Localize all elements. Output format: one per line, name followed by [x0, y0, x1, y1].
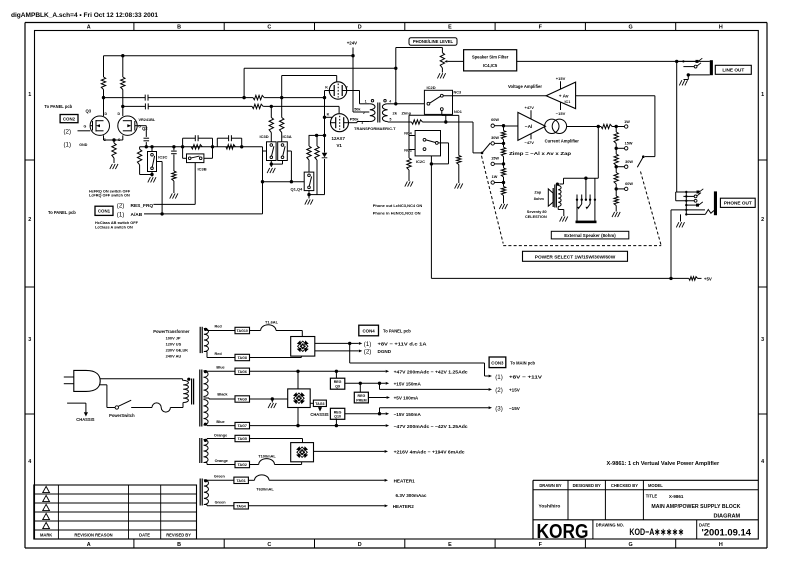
- svg-text:DESIGNED BY: DESIGNED BY: [573, 483, 601, 488]
- svg-text:HEATER1: HEATER1: [394, 479, 416, 484]
- svg-text:1: 1: [365, 100, 367, 104]
- svg-text:Current Amplifier: Current Amplifier: [545, 139, 580, 144]
- label NO1: [454, 110, 462, 114]
- svg-text:B: B: [177, 25, 181, 31]
- svg-text:MODEL: MODEL: [648, 483, 663, 488]
- wire RC node line: [140, 145, 263, 148]
- wire +5V rail: [431, 164, 701, 280]
- svg-text:IC3B: IC3B: [198, 166, 207, 171]
- label 60W left: [491, 118, 499, 122]
- svg-text:G: G: [138, 125, 141, 129]
- connector CON2 box: [60, 115, 78, 123]
- transformer secondary Blue core: [200, 370, 202, 427]
- jack PHONE OUT: [671, 189, 717, 222]
- svg-text:+5V: +5V: [704, 277, 712, 282]
- svg-text:Red: Red: [215, 352, 223, 356]
- svg-text:Speaker Sim Filter: Speaker Sim Filter: [472, 54, 509, 59]
- label xfmr pin5: [390, 118, 392, 122]
- ground line out: [679, 80, 687, 85]
- svg-text:TAG3: TAG3: [315, 402, 324, 406]
- label +15V out: [394, 382, 422, 387]
- svg-text:−15V: −15V: [509, 406, 521, 411]
- svg-text:−47V: −47V: [525, 140, 535, 145]
- wire grid branch line: [309, 134, 325, 137]
- svg-text:+24V: +24V: [347, 41, 357, 46]
- svg-text:PowerTransformer: PowerTransformer: [153, 329, 190, 334]
- svg-text:8ohm: 8ohm: [534, 197, 545, 201]
- fuse heater1: [248, 475, 388, 482]
- label A/AB: [117, 212, 143, 219]
- label PowerSwitch: [109, 413, 135, 418]
- label CHASSIS at plug: [76, 417, 94, 422]
- box Speaker Sim Filter: [464, 50, 517, 71]
- capacitor C-wireB: [145, 103, 148, 109]
- label HEATER2: [393, 504, 415, 509]
- label CON3 pin3: [495, 406, 521, 413]
- svg-text:−Al: −Al: [525, 124, 533, 130]
- wire BR2 vertical taps: [297, 371, 299, 425]
- switch IC2D: [424, 90, 452, 114]
- label T100mAL: [258, 454, 276, 459]
- label P lower: [350, 117, 353, 121]
- label IC3A: [283, 134, 292, 139]
- svg-text:NO1: NO1: [454, 110, 462, 114]
- bridge rectifier BR3: [291, 443, 314, 462]
- fuse T100mAL: [250, 459, 302, 465]
- svg-text:E: E: [448, 542, 452, 548]
- svg-text:(1): (1): [64, 142, 72, 149]
- wire REG PREM in: [359, 383, 361, 392]
- capacitor C-loop2: [217, 135, 241, 147]
- svg-text:External Speaker (8ohm): External Speaker (8ohm): [564, 233, 616, 238]
- svg-text:Orange: Orange: [214, 434, 227, 438]
- svg-text:1: 1: [28, 92, 31, 98]
- label Blue top: [216, 365, 224, 369]
- svg-text:(1): (1): [117, 212, 125, 219]
- svg-text:A: A: [87, 25, 91, 31]
- label PHONE OUT box: [720, 198, 755, 207]
- label 2k Zimp: [393, 110, 412, 115]
- tag TAG1: [234, 477, 249, 483]
- svg-text:KORG: KORG: [537, 520, 589, 543]
- label Current Amplifier: [545, 139, 580, 144]
- svg-text:DGND: DGND: [378, 349, 392, 354]
- switch arm right: [637, 155, 644, 167]
- svg-text:X-9861: 1 ch Vertual Valve Pow: X-9861: 1 ch Vertual Valve Power Amplifi…: [607, 461, 720, 467]
- label NC3: [454, 91, 462, 95]
- svg-text:−47V 200mAdc − −42V 1.25Adc: −47V 200mAdc − −42V 1.25Adc: [394, 424, 468, 429]
- label Orange bottom: [215, 459, 228, 463]
- wire Orange bottom: [204, 463, 236, 465]
- svg-text:IC1: IC1: [565, 100, 571, 104]
- label Black: [217, 392, 228, 396]
- svg-text:T1.6AL: T1.6AL: [265, 320, 279, 325]
- wire +15V to CON3: [380, 383, 493, 391]
- svg-text:2k: 2k: [393, 110, 398, 115]
- svg-text:LcFRQ OFF switch ON: LcFRQ OFF switch ON: [89, 194, 130, 198]
- svg-text:CELESTION: CELESTION: [525, 215, 547, 219]
- label xfmr 50k pin2: [354, 108, 365, 115]
- label CON2 pin2: [64, 128, 72, 135]
- svg-text:RES_FRQ: RES_FRQ: [131, 203, 154, 209]
- connector CON4 box: [359, 325, 379, 336]
- svg-text:TRANSFORMAER/C.T: TRANSFORMAER/C.T: [354, 126, 396, 131]
- ground pot: [437, 73, 445, 78]
- wire +8V to CON3: [350, 343, 492, 377]
- label To PANEL pcb (CON1): [48, 210, 76, 215]
- wire Zimp to arm: [388, 120, 482, 153]
- switch IC3B: [187, 154, 204, 163]
- svg-text:X-9861: X-9861: [669, 494, 684, 499]
- svg-text:Voltage Amplifier: Voltage Amplifier: [508, 84, 542, 89]
- svg-text:NC3: NC3: [454, 91, 462, 95]
- wire NC4 NO2 bracket: [409, 136, 415, 159]
- svg-text:3: 3: [28, 337, 31, 343]
- wire fuse to bridge1: [301, 331, 303, 337]
- label 12AX7 V1: [332, 136, 346, 148]
- svg-text:TAG1: TAG1: [236, 479, 245, 483]
- svg-text:Black: Black: [217, 392, 228, 396]
- tag TAG8: [235, 354, 250, 360]
- svg-text:LcClass A switch ON: LcClass A switch ON: [95, 225, 133, 229]
- label xfmr 50k pin3: [352, 117, 363, 125]
- wire Blue bottom -47V rail: [204, 424, 236, 427]
- svg-text:TAG2: TAG2: [238, 463, 247, 467]
- dashed gang link left: [482, 156, 504, 244]
- resistor R-mid column: [172, 171, 176, 193]
- wire Red top: [204, 329, 235, 331]
- transformer secondary Orange winding: [204, 439, 209, 463]
- label CON2 pin1 GND: [64, 142, 88, 149]
- wire +24V rail: [104, 54, 355, 57]
- label 15W left: [491, 157, 499, 161]
- transformer primary core: [192, 379, 194, 405]
- svg-text:'2001.09.14: '2001.09.14: [702, 528, 752, 539]
- label CON4 pin1: [364, 341, 428, 348]
- transformer secondary Red core: [200, 327, 202, 353]
- wire IC2C common: [430, 143, 449, 166]
- wire upper tube grid route: [282, 76, 337, 98]
- wire lower plate to xfmr pin3: [349, 122, 370, 123]
- svg-text:30W: 30W: [625, 160, 633, 164]
- switch Q1,Q4: [304, 172, 314, 191]
- label P upper: [345, 86, 348, 90]
- svg-text:DRAWN BY: DRAWN BY: [539, 483, 562, 488]
- svg-text:5: 5: [390, 118, 392, 122]
- label Green bottom: [215, 501, 227, 505]
- resistor ladder left (power select): [491, 124, 506, 204]
- diode D-cathode: [322, 153, 328, 158]
- svg-text:GND: GND: [79, 143, 87, 147]
- svg-text:IC3C: IC3C: [158, 154, 167, 159]
- resistor R-IC3C: [137, 147, 152, 175]
- label Seventy 80 CELESTION: [525, 210, 547, 219]
- wire CA input: [504, 125, 518, 127]
- resistor R-grid2: [315, 135, 319, 194]
- svg-text:DIAGRAM: DIAGRAM: [713, 513, 740, 519]
- transistor Q3: [90, 116, 109, 135]
- svg-text:PHONE/LINE LEVEL: PHONE/LINE LEVEL: [413, 39, 454, 44]
- capacitor C-wireA: [145, 95, 148, 101]
- wire BR1 out2: [315, 349, 363, 352]
- svg-text:230V GE,UK: 230V GE,UK: [166, 348, 189, 353]
- label Voltage Amplifier: [508, 84, 542, 89]
- resistor R-+5V: [689, 277, 698, 281]
- label +47V: [525, 105, 535, 119]
- svg-text:D: D: [358, 542, 362, 548]
- KORG logo: [537, 520, 589, 543]
- label LINE OUT box: [715, 65, 751, 74]
- label -15V: [556, 102, 566, 116]
- svg-text:To PANEL pcb: To PANEL pcb: [44, 104, 72, 109]
- resistor R-source: [112, 140, 116, 163]
- tag TAG6: [235, 368, 250, 374]
- contact 1W right: [625, 125, 628, 128]
- svg-text:To PANEL pcb: To PANEL pcb: [383, 329, 411, 334]
- svg-text:Blue: Blue: [216, 365, 224, 369]
- bridge rectifier BR1: [291, 337, 315, 357]
- svg-text:6.3V 300mAac: 6.3V 300mAac: [396, 493, 427, 498]
- svg-text:TAG8: TAG8: [238, 356, 247, 360]
- svg-text:POWER SELECT 1W/15W/30W/60W: POWER SELECT 1W/15W/30W/60W: [535, 255, 616, 261]
- label Red top: [215, 325, 223, 329]
- label 15W right: [625, 142, 633, 146]
- resistor R-Q2drain: [121, 56, 125, 116]
- ground mid column: [170, 193, 178, 198]
- svg-text:(1): (1): [495, 374, 503, 381]
- wire Black center tap: [204, 398, 236, 399]
- wire REG Q10 in: [335, 419, 337, 425]
- wire BR1 out1: [315, 342, 363, 345]
- label 60W right: [625, 182, 633, 186]
- wire NC4 branch: [409, 115, 446, 135]
- wire +216V out: [314, 450, 389, 453]
- svg-text:LINE OUT: LINE OUT: [722, 68, 744, 73]
- svg-text:PowerSwitch: PowerSwitch: [109, 413, 135, 418]
- svg-text:+216V 4mAdc − +194V 6mAdc: +216V 4mAdc − +194V 6mAdc: [394, 450, 465, 455]
- ground speaker: [560, 216, 568, 221]
- svg-text:CON1: CON1: [98, 209, 111, 214]
- svg-text:Q1,Q4: Q1,Q4: [291, 187, 304, 192]
- label To MAIN pcb (CON3): [510, 360, 535, 365]
- ground Q1Q4: [305, 199, 313, 204]
- wire CA output: [567, 125, 625, 128]
- resistor R-NO2: [407, 158, 411, 181]
- wire IC3D IC3A grounds: [270, 161, 283, 168]
- label To PANEL pcb (CON4): [383, 329, 411, 334]
- svg-text:TAG7: TAG7: [238, 424, 247, 428]
- svg-text:HEATER2: HEATER2: [393, 504, 415, 509]
- svg-text:PREM: PREM: [356, 398, 366, 402]
- wire NO1 to ground resistor: [442, 111, 459, 116]
- svg-text:G: G: [84, 124, 87, 128]
- wire xfmr pin4 node: [388, 48, 443, 106]
- title block date: [699, 523, 752, 539]
- svg-text:50k: 50k: [352, 117, 359, 121]
- label +15V: [556, 76, 566, 89]
- tag TAG7: [235, 422, 250, 428]
- svg-text:(2): (2): [495, 387, 503, 394]
- transformer T-interstage: [370, 100, 388, 123]
- label T630mAL: [256, 487, 274, 492]
- label Red bottom: [215, 352, 223, 356]
- revision table grid: [34, 485, 197, 539]
- svg-text:H: H: [719, 25, 723, 31]
- wire pin4 to IC2D: [396, 103, 425, 105]
- svg-text:1: 1: [761, 92, 764, 98]
- label +47V rail: [394, 370, 468, 375]
- tag TAG5: [235, 435, 250, 441]
- svg-text:VR241BL: VR241BL: [139, 118, 156, 122]
- svg-text:(2): (2): [364, 349, 372, 356]
- label RES_FRQ: [117, 203, 154, 210]
- svg-text:+ Av: + Av: [559, 94, 569, 100]
- svg-text:4: 4: [761, 459, 764, 465]
- transformer secondary Red winding: [204, 328, 209, 352]
- svg-text:KOD−A∗∗∗∗∗: KOD−A∗∗∗∗∗: [629, 527, 684, 538]
- resistor ladder right (power select): [614, 127, 628, 212]
- wire TAG9 to bridge2: [250, 397, 288, 400]
- svg-text:To PANEL pcb: To PANEL pcb: [48, 210, 76, 215]
- svg-text:IC2C: IC2C: [416, 159, 425, 164]
- switch IC3C: [148, 147, 157, 177]
- label Zimp formula: [509, 151, 571, 157]
- svg-text:1W: 1W: [624, 120, 630, 124]
- label K lower: [327, 112, 330, 116]
- jack LINE OUT: [677, 58, 713, 192]
- svg-text:CHECKED BY: CHECKED BY: [611, 483, 638, 488]
- tag TAG9: [235, 396, 250, 402]
- label 1W left: [492, 175, 498, 179]
- svg-text:+15V: +15V: [556, 76, 566, 81]
- svg-text:(2): (2): [117, 203, 125, 210]
- label CON4 pin2: [364, 349, 392, 356]
- transformer primary winding: [183, 378, 191, 403]
- tube V1b (lower triode): [331, 114, 349, 132]
- title block header row text: [539, 483, 663, 488]
- wire phone sleeve to +5V rail: [670, 210, 672, 279]
- svg-text:CON2: CON2: [63, 117, 76, 122]
- title block drawn-by name: [539, 504, 561, 510]
- label IC2D: [427, 85, 436, 90]
- ground IC3D: [267, 168, 275, 173]
- svg-text:15W: 15W: [491, 157, 499, 161]
- transformer secondary Green core: [200, 479, 202, 506]
- wire Red bottom: [204, 352, 235, 358]
- switch IC2C: [415, 131, 440, 156]
- label FRQ switch note: [89, 189, 131, 197]
- label IC3D: [260, 134, 269, 139]
- svg-text:(1): (1): [364, 341, 372, 348]
- current source symbol: [545, 119, 567, 133]
- label K upper: [325, 85, 328, 89]
- wire y68 link: [244, 68, 396, 97]
- wire REG Q9 in: [335, 371, 337, 378]
- title block drawing-no: [596, 523, 684, 539]
- header filename text: [11, 12, 159, 19]
- label CON3 pin1: [495, 374, 543, 381]
- svg-text:2: 2: [28, 217, 31, 223]
- svg-text:G: G: [628, 542, 632, 548]
- svg-text:D: D: [105, 112, 108, 116]
- label Q2 VR241BL: [118, 112, 156, 142]
- svg-text:12AX7: 12AX7: [332, 136, 346, 141]
- tag TAG4: [234, 503, 249, 509]
- svg-text:CHASSIS: CHASSIS: [310, 412, 328, 417]
- svg-text:+8V − +11V d.c 1A: +8V − +11V d.c 1A: [378, 341, 428, 346]
- svg-text:Q2: Q2: [142, 126, 148, 131]
- transformer secondary Orange core: [200, 438, 202, 463]
- tag TAG2: [235, 461, 250, 467]
- svg-text:A/AB: A/AB: [131, 212, 143, 218]
- label -47V rail: [394, 424, 468, 429]
- wire +24V drop to transformer CT: [353, 48, 369, 113]
- fuse T1.6AL: [250, 325, 303, 331]
- label NO2: [404, 149, 412, 153]
- svg-text:A: A: [87, 542, 91, 548]
- resistor R-wireA: [253, 95, 264, 99]
- svg-text:REVISED BY: REVISED BY: [166, 533, 191, 538]
- resistor R-grid1: [307, 135, 311, 172]
- svg-text:V1: V1: [337, 143, 343, 148]
- transformer secondary Green winding: [204, 479, 209, 504]
- wire -15V out: [345, 412, 389, 415]
- svg-text:15W: 15W: [625, 142, 633, 146]
- wire NC3 to voltage amp: [443, 95, 546, 97]
- wire -47V rail: [250, 424, 390, 427]
- label -47V: [525, 134, 535, 145]
- svg-text:−15V: −15V: [556, 111, 566, 116]
- svg-text:T100mAL: T100mAL: [258, 454, 276, 459]
- svg-text:Phone out LcNC3,NC4 ON: Phone out LcNC3,NC4 ON: [373, 203, 423, 208]
- label Class switch note: [95, 221, 139, 229]
- revision table header text: [40, 533, 191, 538]
- wire TAG5 to bridge3: [250, 439, 303, 443]
- svg-text:H: H: [719, 542, 723, 548]
- svg-text:TAG9: TAG9: [238, 398, 247, 402]
- label T1.6AL: [265, 320, 279, 325]
- wire +5V out: [368, 396, 390, 399]
- svg-text:Green: Green: [215, 501, 227, 505]
- +24V supply label: [347, 41, 357, 46]
- label Green top: [214, 475, 226, 479]
- resistor R-Q3drain: [101, 56, 105, 116]
- resistor R-CAout: [601, 124, 612, 128]
- regulator REG PREM: [354, 392, 368, 403]
- capacitor C-Q2gate: [144, 138, 150, 141]
- svg-text:To MAIN pcb: To MAIN pcb: [510, 360, 535, 365]
- label 6.3V 300mAac: [396, 493, 427, 498]
- wire Q3 Q2 sources join: [104, 135, 123, 141]
- svg-text:120V US: 120V US: [166, 342, 182, 347]
- svg-text:1W: 1W: [492, 175, 498, 179]
- svg-text:3: 3: [761, 337, 764, 343]
- connector CON1 box: [95, 206, 113, 215]
- wire cathode column: [323, 91, 333, 195]
- label To PANEL pcb (CON2): [44, 104, 72, 109]
- wire plug bottom to switch: [99, 385, 107, 408]
- svg-text:MAIN AMP/POWER SUPPLY BLOCK: MAIN AMP/POWER SUPPLY BLOCK: [651, 504, 740, 510]
- resistor R-NO1: [457, 115, 461, 183]
- ground ladder left: [499, 204, 507, 209]
- resistor R-wireB: [252, 104, 263, 108]
- wire heater2: [248, 504, 388, 507]
- title block grid: [533, 480, 758, 539]
- wire B lower feedback: [123, 105, 339, 113]
- svg-text:Zap: Zap: [534, 191, 541, 195]
- transformer secondary Blue winding lower: [204, 400, 209, 426]
- tag TAG10: [235, 327, 250, 333]
